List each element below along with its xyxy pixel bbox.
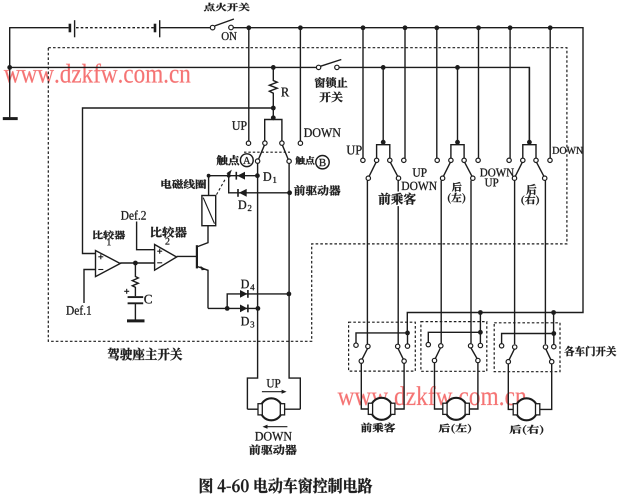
node coil-D1 corner — [207, 174, 211, 178]
driver rocker inner-left contact — [263, 141, 267, 145]
label D2 — [238, 201, 246, 210]
arrow down-direction — [266, 426, 288, 428]
diode D1 — [235, 172, 237, 180]
door switch front passenger left rocker contact — [366, 344, 370, 348]
ignition switch right contact — [229, 25, 234, 30]
wire top rail drop to front passenger outer-right — [404, 28, 406, 158]
wire feed drop to box2 — [479, 313, 481, 333]
wire supply line to window lock switch — [10, 66, 317, 68]
door switch rear left lever left — [435, 348, 440, 359]
front passenger rocker switch bracket — [377, 145, 390, 158]
dashed box driver master switch group — [48, 48, 567, 342]
rear-right rocker switch lever right — [537, 162, 544, 176]
rear-right rocker switch inner-right contact — [534, 158, 538, 162]
node top rail junction x249 — [246, 25, 251, 30]
label D1 — [263, 172, 271, 181]
door switch rear left common-left contact — [432, 358, 436, 362]
node top rail junction x478 — [476, 25, 481, 30]
front passenger rocker switch inner-right contact — [388, 158, 392, 162]
mechanical link dashed between contact levers — [244, 151, 290, 153]
label front passenger backing — [378, 192, 418, 207]
door switch front passenger motor wire right — [394, 363, 405, 409]
motor M3 rear right — [516, 398, 538, 420]
label UP between rockers — [413, 168, 427, 176]
label D3 — [241, 317, 249, 326]
wire front passenger common-left drop — [366, 180, 368, 344]
label contact A 触点 — [217, 155, 240, 165]
wire rear-left common-left drop — [440, 180, 442, 343]
node junction D3 to contact-A wire — [256, 306, 261, 311]
label DOWN left of rear-right rocker — [480, 169, 514, 177]
front passenger rocker switch common-left contact — [366, 176, 370, 180]
door switch rear right left rocker contact — [513, 345, 517, 349]
node D2 branch tap — [227, 174, 231, 178]
wire battery B2 to ignition switch — [160, 27, 210, 29]
node junction D2 to contact-B wire — [287, 190, 292, 195]
node top rail junction x550 — [548, 25, 553, 30]
window lock switch right contact — [335, 65, 339, 69]
window lock switch left contact — [316, 65, 320, 69]
door switch rear left motor wire left — [435, 363, 445, 409]
rear-right rocker switch outer-right contact — [548, 158, 552, 162]
rear-left rocker switch bracket — [451, 145, 464, 158]
door switch front passenger outer-left contact — [354, 343, 358, 347]
door switch front passenger feed stub down — [407, 333, 409, 344]
dashed box door switch rear right — [494, 323, 560, 372]
wire U1 - input to Def.1 — [84, 270, 96, 304]
label window lock switch line1 窗锁止 — [315, 77, 348, 88]
rear-left rocker switch common-left contact — [440, 176, 444, 180]
wire top rail drop to rear-left outer-left — [436, 28, 438, 158]
watermark bottom — [338, 386, 527, 405]
wire top rail left segment — [10, 27, 69, 29]
door switch front passenger motor wire left — [361, 363, 369, 409]
rear-left rocker switch outer-right contact — [476, 158, 480, 162]
diode D4 — [240, 290, 247, 298]
contact A terminal — [255, 159, 259, 163]
label R — [281, 88, 289, 97]
wire top rail drop to front passenger outer-left — [362, 28, 364, 158]
label front passenger 前乘客 — [379, 193, 416, 205]
ground left — [3, 117, 18, 120]
coil body — [202, 196, 216, 226]
label rear left 后 — [452, 182, 462, 192]
node junction R to sense line — [271, 106, 276, 111]
op-amp U1 comparator 1 — [96, 251, 121, 277]
capacitor C plus sign — [124, 290, 129, 292]
wire D2 branch — [229, 176, 290, 193]
wire top rail drop to rear-right outer-right — [549, 28, 551, 158]
label electromagnetic coil 电磁线圈 — [162, 179, 207, 189]
node supply junction x457 — [455, 65, 460, 70]
label circled B — [316, 156, 329, 169]
door switch rear right common-left contact — [506, 360, 510, 364]
node supply junction x383 — [381, 65, 386, 70]
transistor Q1 base bar — [196, 245, 198, 268]
label front drive unit 前驱动器 — [249, 445, 296, 455]
wire rocker feed stub — [272, 108, 274, 120]
battery B2 negative plate (thick short bar) — [154, 24, 157, 33]
door switch front passenger common-right contact — [402, 359, 406, 363]
driver rocker outer-left contact — [246, 141, 250, 145]
wire left drop from top rail — [9, 27, 11, 117]
contact B terminal — [287, 159, 291, 163]
battery B2 positive plate (thin long bar) — [159, 20, 161, 37]
rear-right rocker switch feed wire — [528, 67, 530, 142]
window lock switch lever — [321, 60, 342, 67]
label driver master switch 驾驶座主开关 — [108, 348, 183, 361]
front passenger rocker switch feed wire — [382, 67, 384, 142]
door switch rear left common-right contact — [476, 358, 480, 362]
wire feed drop to box3 — [553, 313, 555, 334]
door switch front passenger lever left — [362, 349, 367, 360]
label contact B 触点 — [296, 156, 315, 165]
driver rocker inner-right contact — [280, 141, 284, 145]
wire front passenger common-right drop — [397, 180, 399, 344]
motor M2 rear left — [445, 398, 467, 420]
op-amp U2 comparator 2 — [155, 245, 177, 271]
node junction D4 to contact-B wire — [287, 292, 292, 297]
door switch rear right lever left — [509, 349, 514, 360]
wire top rail from ignition to top-right corner then down and left to door-switch feed — [233, 28, 583, 333]
dashed box door switch rear left — [421, 322, 487, 372]
door switch rear left feed node — [478, 330, 483, 335]
label D4 — [241, 280, 249, 289]
door switch front passenger internal feed wire — [356, 333, 408, 344]
label motor front passenger 前乘客 — [361, 423, 395, 433]
node feed junction box2 — [478, 310, 483, 315]
node top rail junction x300 — [298, 25, 303, 30]
arrow up-direction — [262, 391, 283, 393]
node U1 output junction — [133, 261, 138, 266]
resistor R — [269, 67, 277, 108]
wire rocker feed bracket — [265, 120, 282, 141]
front passenger rocker switch common-right contact — [396, 176, 400, 180]
label UP left of rear-right rocker — [485, 179, 499, 187]
driver rocker lever B — [282, 145, 288, 159]
label ON — [222, 32, 237, 40]
node top rail junction x510 — [508, 25, 513, 30]
door switch front passenger feed node — [405, 331, 410, 336]
door switch rear right feed stub down — [553, 334, 555, 345]
rear-right rocker switch common-right contact — [543, 176, 547, 180]
rear-left rocker switch inner-right contact — [462, 158, 466, 162]
wire U1 output to capacitor (with kink) — [132, 263, 138, 296]
door switch rear left outer-left contact — [426, 342, 430, 346]
wire rear-left common-right drop — [470, 180, 472, 343]
U1 plus sign — [98, 256, 103, 258]
rear-right rocker switch common-left contact — [512, 176, 516, 180]
wire rear-right common-left drop — [514, 180, 516, 344]
label DOWN (front drive motor) — [255, 432, 292, 441]
label rear right 后 — [526, 184, 536, 195]
door switch rear right internal feed wire — [502, 334, 554, 345]
diode D2 — [237, 189, 239, 197]
label door switches 各车门开关 — [564, 346, 616, 356]
capacitor C bottom plate — [128, 302, 144, 304]
node top rail junction x363 — [361, 25, 366, 30]
label motor rear left 后(左) — [439, 424, 471, 434]
U2 minus sign — [157, 262, 162, 264]
wire rear-right common-right drop — [544, 180, 546, 344]
front passenger rocker switch feed junction — [381, 140, 386, 145]
mechanical link coil to contact (dashed with arrow) — [217, 180, 226, 195]
label circled A — [240, 154, 253, 167]
door switch rear left right rocker contact — [468, 344, 472, 348]
label motor rear right 后(右) — [510, 425, 544, 435]
wire sense line to comparator 1 + input — [83, 108, 274, 254]
Q1 collector — [197, 226, 208, 247]
U1 minus sign — [98, 269, 103, 271]
door switch front passenger common-left contact — [359, 359, 363, 363]
capacitor C top plate — [128, 296, 144, 298]
label front driver unit 前驱动器 — [294, 185, 340, 196]
diode D3 — [240, 305, 247, 313]
rear-left rocker switch lever right — [465, 162, 472, 176]
label C — [144, 295, 152, 304]
rear-left rocker switch outer-left contact — [435, 158, 439, 162]
wire emitter to D3/D4 node — [208, 307, 227, 309]
node junction left rail / supply line — [7, 65, 12, 70]
U2 plus sign — [157, 250, 162, 252]
label Def.1 — [66, 305, 91, 314]
motor M0 front drive — [247, 408, 259, 410]
node top rail junction x437 — [434, 25, 439, 30]
motor M1 front passenger — [371, 398, 393, 420]
wire coil top to D1/D2 node — [209, 176, 258, 196]
door switch rear left left rocker contact — [439, 344, 443, 348]
door switch rear left feed stub down — [479, 332, 481, 343]
node supply junction x273 (R) — [271, 65, 276, 70]
label window lock switch line2 开关 — [320, 92, 343, 103]
caption 图4-60 电动车窗控制电路 — [200, 478, 372, 494]
node junction D1 to contact-A wire — [255, 173, 260, 178]
driver rocker lever A — [259, 145, 265, 159]
node feed junction box3 — [551, 310, 556, 315]
front passenger rocker switch lever right — [390, 162, 397, 176]
wire contact A down to motor frame — [247, 163, 257, 409]
wire top rail drop to rear-right outer-left — [509, 28, 511, 158]
ignition switch left contact — [210, 25, 215, 30]
wire U1 output — [120, 262, 154, 264]
door switch front passenger right rocker contact — [396, 344, 400, 348]
rear-right rocker switch outer-left contact — [507, 158, 511, 162]
front passenger rocker switch outer-left contact — [361, 158, 365, 162]
label rear right (右) — [521, 195, 539, 205]
door switch rear right motor wire left — [508, 364, 514, 410]
front passenger rocker switch outer-right contact — [402, 158, 406, 162]
ground capacitor — [127, 319, 145, 322]
wire supply line from lock switch to rear-right feed corner — [339, 67, 529, 140]
ignition switch lever — [215, 19, 234, 26]
battery B1 negative plate (thick short bar) — [69, 24, 72, 33]
wire top rail drop to rear-left outer-right — [478, 28, 480, 158]
driver rocker outer-left wire from top rail — [248, 28, 250, 141]
front passenger rocker switch inner-left contact — [374, 158, 378, 162]
driver rocker outer-right wire from top rail — [299, 28, 301, 141]
node rocker feed junction — [271, 115, 276, 120]
label DOWN between rockers — [402, 182, 437, 191]
door switch rear left motor wire right — [468, 363, 478, 409]
rear-left rocker switch lever left — [443, 162, 450, 176]
rear-right rocker switch inner-left contact — [521, 158, 525, 162]
label 2 — [165, 238, 169, 245]
door switch front passenger outer-right contact — [405, 344, 409, 348]
door switch rear right common-right contact — [550, 360, 554, 364]
label DOWN right of rear-right rocker — [553, 147, 584, 154]
label ignition switch 点火开关 — [204, 3, 250, 11]
wire contact B down to motor frame — [289, 163, 300, 409]
label DOWN (driver rocker) — [304, 128, 341, 137]
dashed box door switch front passenger — [349, 322, 416, 371]
wire D3 to contact-A wire — [227, 307, 258, 309]
rear-right rocker switch feed junction — [527, 140, 532, 145]
label 1 — [107, 239, 110, 245]
wire D4 branch — [227, 294, 289, 309]
Q1 emitter — [197, 266, 208, 308]
wire U2 output to base — [177, 255, 197, 257]
rear-right rocker switch lever left — [515, 162, 522, 176]
rear-left rocker switch feed wire — [457, 67, 459, 142]
door switch rear left outer-right contact — [478, 343, 482, 347]
rear-left rocker switch common-right contact — [471, 176, 475, 180]
rear-left rocker switch inner-left contact — [449, 158, 453, 162]
door switch rear right outer-left contact — [499, 344, 503, 348]
label UP (driver rocker) — [232, 121, 247, 130]
door switch rear left lever right — [471, 348, 477, 359]
label comparator2 比较器 — [151, 227, 187, 238]
wire capacitor to ground — [134, 303, 136, 320]
label UP left of front passenger rocker — [347, 146, 362, 155]
door switch rear right motor wire right — [538, 364, 551, 410]
node top rail junction x405 — [403, 25, 408, 30]
door switch front passenger lever right — [398, 349, 403, 360]
wire Def.2 to U2 + input — [137, 222, 155, 250]
door switch rear right right rocker contact — [543, 345, 547, 349]
label comparator1 比较器 — [93, 230, 125, 239]
watermark top — [4, 64, 191, 83]
rear-left rocker switch feed junction — [455, 140, 460, 145]
label Def.2 — [121, 210, 146, 219]
rear-right rocker switch bracket — [523, 145, 536, 158]
door switch rear right outer-right contact — [552, 345, 556, 349]
door switch rear right feed node — [551, 331, 556, 336]
driver rocker outer-right contact — [298, 141, 302, 145]
battery B1 positive plate (thin long bar) — [74, 20, 76, 37]
label UP (front drive motor) — [267, 379, 281, 387]
node emitter-D3-D4 junction — [225, 306, 230, 311]
label rear left (左) — [448, 193, 465, 204]
front passenger rocker switch lever left — [369, 162, 376, 176]
wire dashed link between battery cells — [76, 27, 154, 29]
door switch rear right lever right — [546, 349, 551, 360]
door switch rear left internal feed wire — [428, 332, 480, 343]
